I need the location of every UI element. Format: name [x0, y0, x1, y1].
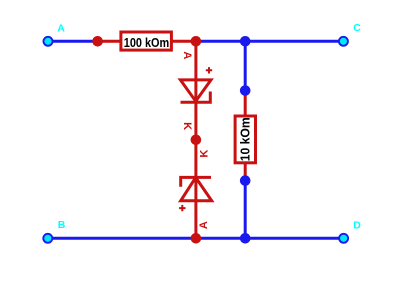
svg-text:K: K — [181, 122, 193, 130]
wire bottom: terminal B to terminal D — [48, 237, 344, 240]
wire top: terminal A to node R1-left — [48, 40, 98, 43]
node: R2 bottom terminal dot — [240, 175, 251, 186]
zener diode VD1 lead from top node — [194, 41, 197, 140]
node: junction between VD1 and VD2 — [191, 135, 202, 146]
terminal C — [339, 37, 348, 46]
svg-text:B: B — [58, 219, 66, 231]
zener diode VD1 polarity mark + — [206, 67, 212, 73]
resistor R2 lead top — [244, 91, 247, 117]
terminal D — [339, 234, 348, 243]
zener diode VD2 polarity mark + — [179, 205, 185, 211]
terminal A — [44, 37, 53, 46]
zener diode VD2 lead to bottom node — [194, 140, 197, 239]
node: R1 left terminal dot — [92, 36, 103, 47]
resistor R2 lead bottom — [244, 163, 247, 181]
zener diode VD2 cathode bar with bent end — [181, 177, 211, 186]
resistor R1 lead left — [98, 40, 121, 43]
wire top: node top-mid to terminal C — [196, 40, 344, 43]
svg-text:K: K — [199, 150, 211, 158]
zener diode VD2 triangle — [181, 178, 212, 201]
resistor R1 lead right — [172, 40, 196, 43]
resistor R2 body — [235, 116, 255, 163]
zener diode VD1 triangle — [180, 80, 211, 101]
node: top mid junction dot — [191, 36, 202, 47]
node: top wire R2 branch junction dot — [240, 36, 251, 47]
svg-text:A: A — [57, 23, 65, 35]
node: VD2 anode bottom junction dot — [191, 233, 202, 244]
svg-text:A: A — [198, 221, 210, 229]
resistor R1 body — [121, 32, 171, 50]
svg-text:10 kOm: 10 kOm — [238, 117, 252, 161]
node: bottom wire R2 branch junction dot — [240, 233, 251, 244]
node: R2 top terminal dot — [240, 85, 251, 96]
wire: R2 branch vertical top segment — [244, 41, 247, 90]
zener diode VD1 cathode bar with bent end — [181, 92, 211, 103]
svg-text:A: A — [181, 51, 193, 59]
terminal B — [43, 234, 52, 243]
wire: R2 branch vertical bottom segment — [244, 181, 247, 239]
svg-text:C: C — [353, 22, 361, 34]
svg-text:D: D — [353, 219, 361, 231]
svg-text:100 kOm: 100 kOm — [124, 36, 170, 50]
